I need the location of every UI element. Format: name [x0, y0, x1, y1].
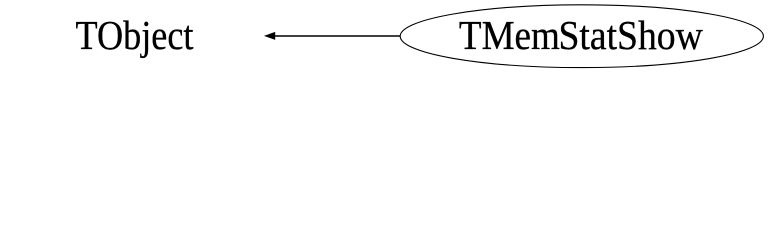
- node TMemStatShow ellipse: [400, 5, 763, 68]
- svg-text:TMem: TMem: [459, 12, 560, 58]
- wire (inheritance arrow shaft): [274, 35, 401, 37]
- arrowhead pointing to TObject: [265, 32, 275, 39]
- svg-text:StatShow: StatShow: [558, 12, 702, 58]
- svg-text:TObject: TObject: [76, 12, 194, 58]
